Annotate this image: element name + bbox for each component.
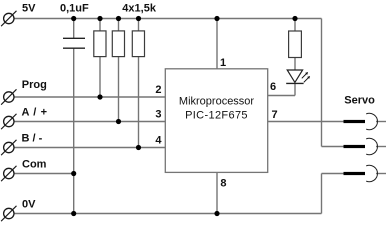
svg-text:Servo: Servo bbox=[344, 94, 375, 106]
svg-text:B / -: B / - bbox=[22, 133, 43, 145]
svg-text:6: 6 bbox=[270, 81, 276, 93]
svg-text:5V: 5V bbox=[22, 3, 36, 15]
svg-text:Mikroprocessor: Mikroprocessor bbox=[179, 95, 255, 107]
svg-text:4x1,5k: 4x1,5k bbox=[122, 2, 157, 14]
svg-text:4: 4 bbox=[155, 135, 162, 147]
svg-text:A / +: A / + bbox=[22, 106, 48, 118]
svg-text:PIC-12F675: PIC-12F675 bbox=[185, 109, 248, 121]
svg-text:2: 2 bbox=[155, 84, 161, 96]
svg-text:3: 3 bbox=[155, 109, 161, 121]
svg-text:1: 1 bbox=[220, 57, 226, 69]
svg-text:0,1uF: 0,1uF bbox=[60, 2, 89, 14]
svg-text:7: 7 bbox=[272, 109, 278, 121]
svg-text:8: 8 bbox=[220, 177, 226, 189]
svg-text:Com: Com bbox=[22, 159, 47, 171]
svg-text:0V: 0V bbox=[22, 198, 36, 210]
svg-text:Prog: Prog bbox=[22, 79, 47, 91]
